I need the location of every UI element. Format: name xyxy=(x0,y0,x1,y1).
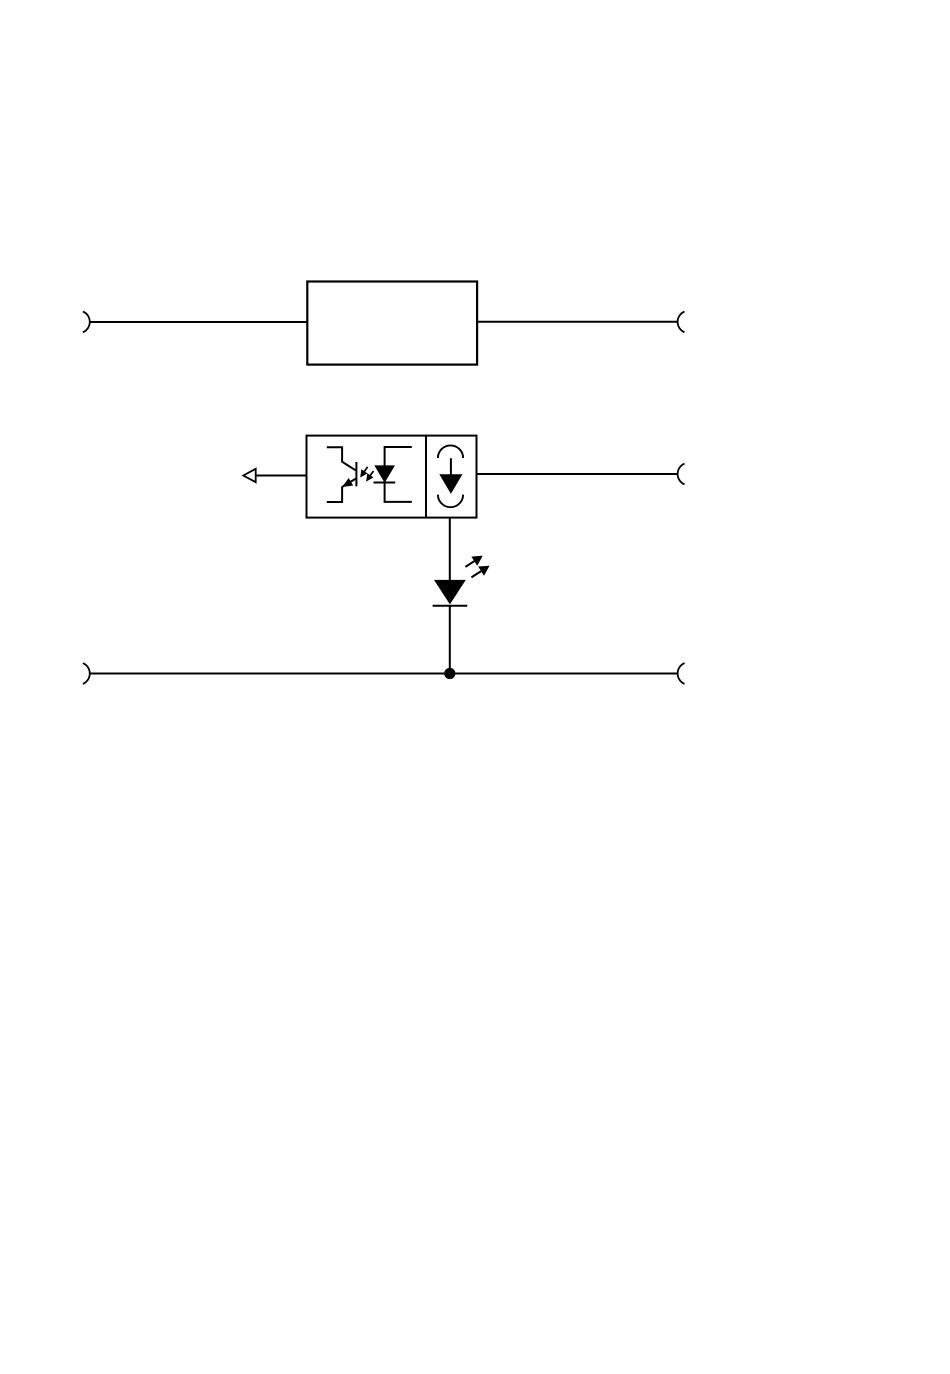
wire U1 bottom to D1 xyxy=(449,518,451,581)
phototransistor Q1 (inside U1) xyxy=(327,447,357,502)
current source CS1 (inside U1) xyxy=(438,445,463,507)
terminal P4 (bottom-left connector pin) xyxy=(83,663,90,684)
wire R1 to P2 xyxy=(477,321,678,323)
wire P1 to R1 xyxy=(90,321,308,323)
U1 internal divider xyxy=(425,436,427,518)
pin arrow (U1 pin 1, open arrowhead) xyxy=(243,469,255,482)
terminal P1 (top-left connector pin) xyxy=(83,312,90,333)
junction node A xyxy=(444,668,455,679)
wire P4 to P5 (bottom rail) xyxy=(90,673,678,675)
terminal P5 (bottom-right connector pin) xyxy=(678,663,685,684)
wire U1 to P3 xyxy=(477,473,679,475)
terminal P2 (top-right connector pin) xyxy=(678,312,685,333)
emission arrows of D1 xyxy=(465,556,488,577)
terminal P3 (middle-right connector pin) xyxy=(678,464,685,485)
wire arrow to U1 xyxy=(256,475,307,477)
wire D1 to junction xyxy=(449,606,451,674)
LED D1 (light emitting diode) xyxy=(433,580,468,605)
optocoupler U1 (package outline) xyxy=(307,436,477,518)
light arrows (LED to Q1 inside U1) xyxy=(361,467,374,481)
resistor R1 (box body) xyxy=(307,282,477,365)
LED D2 (emitter inside U1) xyxy=(374,447,412,502)
